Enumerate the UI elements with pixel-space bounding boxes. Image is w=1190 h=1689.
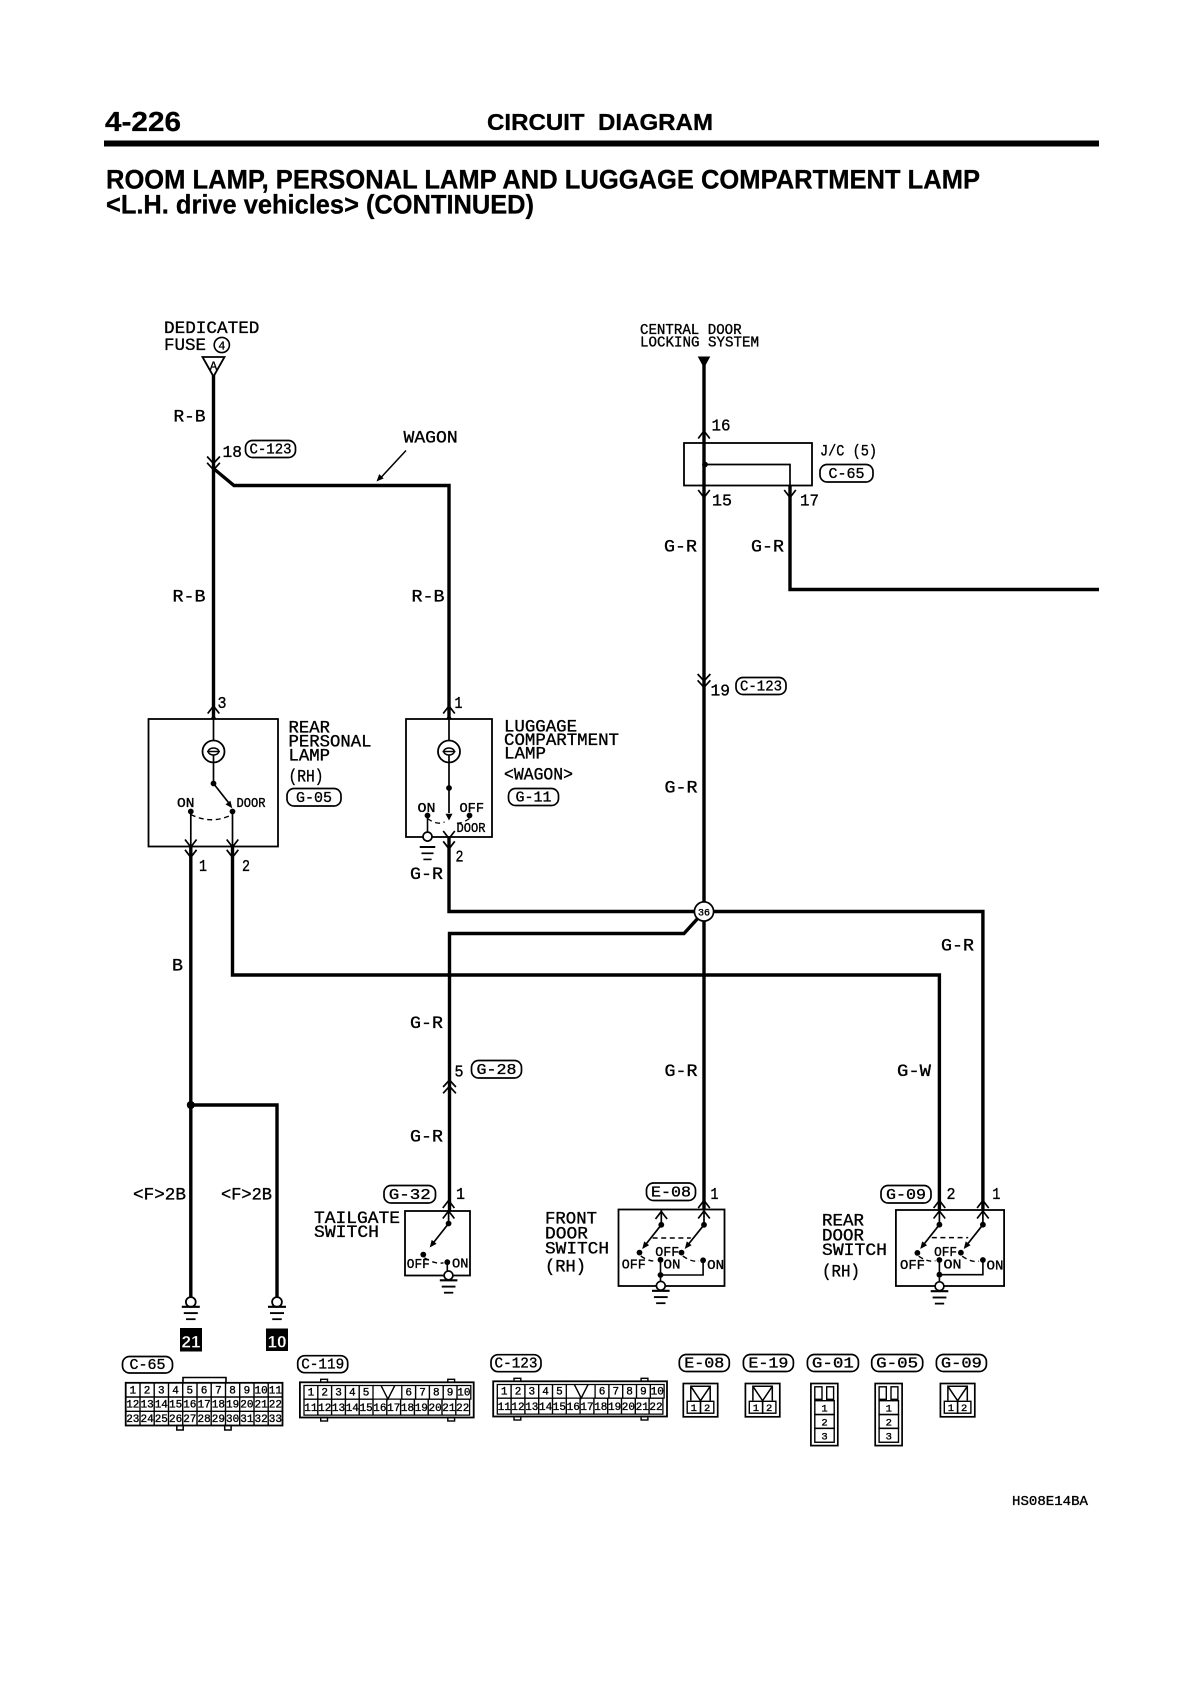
svg-text:ON: ON <box>944 1259 962 1274</box>
svg-text:10: 10 <box>457 1388 470 1400</box>
svg-text:G-R: G-R <box>410 1014 444 1034</box>
svg-text:5: 5 <box>186 1385 193 1397</box>
svg-text:G-R: G-R <box>410 1128 444 1148</box>
svg-text:(RH): (RH) <box>822 1263 860 1283</box>
svg-text:3: 3 <box>158 1385 165 1397</box>
svg-text:WAGON: WAGON <box>404 429 458 449</box>
svg-text:<F>2B: <F>2B <box>133 1186 186 1206</box>
svg-text:CIRCUIT DIAGRAM: CIRCUIT DIAGRAM <box>487 109 713 135</box>
svg-text:15: 15 <box>169 1400 182 1412</box>
svg-text:C-65: C-65 <box>829 466 865 483</box>
svg-text:17: 17 <box>387 1403 400 1415</box>
svg-text:16: 16 <box>567 1402 580 1414</box>
svg-text:11: 11 <box>304 1403 318 1415</box>
svg-text:E-08: E-08 <box>651 1184 691 1201</box>
svg-text:20: 20 <box>428 1403 441 1415</box>
connector G-28 pin 5 <box>443 1061 521 1094</box>
svg-text:OFF: OFF <box>407 1258 430 1273</box>
svg-text:DOOR: DOOR <box>237 797 266 812</box>
svg-text:ON: ON <box>707 1259 724 1274</box>
svg-text:6: 6 <box>599 1387 606 1399</box>
svg-text:1: 1 <box>129 1385 136 1397</box>
svg-text:G-28: G-28 <box>477 1062 517 1079</box>
svg-text:7: 7 <box>419 1388 426 1400</box>
rear personal lamp pin 3 <box>208 695 227 724</box>
svg-text:2: 2 <box>886 1418 892 1430</box>
svg-text:J/C (5): J/C (5) <box>820 443 877 461</box>
title line 1 <box>106 165 980 195</box>
svg-text:9: 9 <box>244 1385 251 1397</box>
svg-text:1: 1 <box>992 1186 1000 1205</box>
svg-text:13: 13 <box>140 1400 153 1412</box>
svg-text:ON: ON <box>452 1258 469 1273</box>
header CIRCUIT DIAGRAM <box>487 109 713 135</box>
rear personal lamp (RH) G-05 <box>149 719 279 847</box>
connector C-123 pin 18 <box>207 441 295 470</box>
svg-text:SWITCH: SWITCH <box>545 1240 609 1260</box>
svg-text:LAMP: LAMP <box>289 747 331 767</box>
svg-text:G-09: G-09 <box>941 1355 982 1372</box>
svg-text:3: 3 <box>335 1388 342 1400</box>
svg-text:14: 14 <box>155 1400 169 1412</box>
rear door switch (RH) <box>896 1210 1004 1291</box>
svg-text:3: 3 <box>886 1431 892 1443</box>
svg-text:31: 31 <box>240 1414 254 1426</box>
connector G-09 label <box>881 1186 931 1204</box>
svg-text:19: 19 <box>608 1402 621 1414</box>
svg-text:1: 1 <box>948 1403 954 1415</box>
svg-text:4: 4 <box>218 341 225 354</box>
svg-text:32: 32 <box>254 1414 267 1426</box>
svg-text:5: 5 <box>455 1064 464 1083</box>
svg-text:(RH): (RH) <box>545 1258 586 1278</box>
dedicated fuse label <box>164 319 259 356</box>
svg-text:ON: ON <box>987 1260 1004 1275</box>
label G-R above tailgate switch <box>410 1128 444 1148</box>
svg-text:5: 5 <box>363 1388 370 1400</box>
svg-text:C-123: C-123 <box>250 441 292 458</box>
svg-text:7: 7 <box>612 1387 619 1399</box>
connector E-08 pinout <box>679 1355 729 1417</box>
svg-text:18: 18 <box>223 444 243 463</box>
svg-text:ON: ON <box>177 797 195 812</box>
svg-text:G-09: G-09 <box>886 1187 926 1204</box>
svg-text:2: 2 <box>242 858 250 877</box>
svg-text:OFF: OFF <box>622 1259 646 1274</box>
wire branch to ground 10 <box>187 1101 277 1297</box>
rear door switch pin 2 <box>934 1186 956 1219</box>
svg-text:16: 16 <box>712 418 731 437</box>
svg-text:2: 2 <box>456 849 464 868</box>
svg-text:19: 19 <box>711 683 731 702</box>
drawing code <box>1012 1495 1089 1510</box>
svg-text:1: 1 <box>691 1403 697 1415</box>
svg-text:18: 18 <box>594 1402 607 1414</box>
svg-text:1: 1 <box>455 695 463 714</box>
header rule <box>104 141 1099 147</box>
luggage lamp pin 2 <box>443 831 463 868</box>
svg-text:21: 21 <box>636 1402 650 1414</box>
svg-text:DOOR: DOOR <box>457 822 486 837</box>
front door switch pin 1 <box>698 1186 718 1219</box>
svg-text:33: 33 <box>269 1414 282 1426</box>
svg-text:SWITCH: SWITCH <box>314 1223 379 1243</box>
connector G-01 pinout <box>807 1355 858 1446</box>
svg-text:4: 4 <box>349 1388 356 1400</box>
svg-text:G-R: G-R <box>941 937 975 957</box>
svg-text:ON: ON <box>418 802 436 817</box>
J/C pin 15 <box>698 490 732 512</box>
svg-text:SWITCH: SWITCH <box>822 1241 887 1261</box>
svg-text:<L.H. drive vehicles> (CONTINU: <L.H. drive vehicles> (CONTINUED) <box>106 190 534 220</box>
label G-R below luggage lamp <box>410 865 444 885</box>
svg-text:2: 2 <box>515 1387 522 1399</box>
svg-text:27: 27 <box>183 1414 196 1426</box>
central door locking system feed <box>640 323 759 368</box>
connector C-119 pinout <box>298 1356 474 1421</box>
svg-text:21: 21 <box>254 1400 268 1412</box>
title line 2 <box>106 190 534 220</box>
svg-text:19: 19 <box>415 1403 428 1415</box>
label WAGON with arrow <box>377 429 458 482</box>
ground 10 <box>266 1297 288 1351</box>
luggage compartment lamp WAGON G-11 <box>406 719 492 859</box>
connector E-08 label <box>647 1183 696 1201</box>
svg-text:1: 1 <box>711 1186 719 1205</box>
wire R-B from fuse A down to rear personal lamp pin 3 <box>212 375 215 719</box>
connector C-123 pin 19 <box>698 674 786 702</box>
svg-text:R-B: R-B <box>174 408 206 428</box>
svg-text:3: 3 <box>821 1431 827 1443</box>
svg-text:G-05: G-05 <box>296 790 332 807</box>
svg-text:12: 12 <box>318 1403 331 1415</box>
label B <box>172 957 183 977</box>
ground 21 <box>180 1297 202 1351</box>
label R-B upper <box>174 408 206 428</box>
svg-text:22: 22 <box>269 1400 282 1412</box>
svg-text:1: 1 <box>501 1387 508 1399</box>
svg-text:29: 29 <box>212 1414 225 1426</box>
wire central door locking system down through J/C to front door switch pin 1 <box>702 364 705 1210</box>
svg-text:C-123: C-123 <box>740 678 782 695</box>
svg-text:15: 15 <box>712 493 732 512</box>
svg-text:2: 2 <box>947 1186 956 1205</box>
label G-R below pin 15 <box>664 538 698 558</box>
svg-text:3: 3 <box>528 1387 535 1399</box>
svg-text:12: 12 <box>126 1400 139 1412</box>
svg-text:17: 17 <box>197 1400 210 1412</box>
svg-text:G-W: G-W <box>897 1062 932 1082</box>
rear door switch pin 1 <box>977 1186 1000 1219</box>
svg-text:30: 30 <box>226 1414 239 1426</box>
label R-B right <box>412 588 445 608</box>
connector C-123 pinout <box>491 1355 667 1420</box>
svg-text:2: 2 <box>704 1403 710 1415</box>
connector C-65 pinout <box>123 1357 283 1431</box>
label G-W <box>897 1062 932 1082</box>
rear door switch labels <box>822 1212 887 1283</box>
junction 36 <box>694 902 713 921</box>
svg-text:B: B <box>172 957 183 977</box>
front door switch ground <box>652 1291 670 1303</box>
wire G-R from J/C pin 17 to right edge <box>790 486 1099 590</box>
svg-text:3: 3 <box>218 695 227 714</box>
connector G-32 label <box>384 1186 436 1204</box>
svg-text:9: 9 <box>447 1388 454 1400</box>
svg-text:9: 9 <box>640 1387 647 1399</box>
tailgate switch labels <box>314 1209 400 1243</box>
label G-R right branch <box>941 937 975 957</box>
svg-text:15: 15 <box>359 1403 372 1415</box>
svg-text:22: 22 <box>456 1403 469 1415</box>
label F 2B left <box>133 1186 186 1206</box>
svg-text:18: 18 <box>401 1403 414 1415</box>
svg-text:E-19: E-19 <box>748 1355 788 1372</box>
svg-text:OFF: OFF <box>460 802 485 817</box>
svg-text:2: 2 <box>766 1403 772 1415</box>
connector E-19 pinout <box>743 1355 793 1417</box>
svg-text:10: 10 <box>651 1387 664 1399</box>
svg-text:OFF: OFF <box>900 1259 925 1274</box>
svg-text:HS08E14BA: HS08E14BA <box>1012 1495 1089 1510</box>
svg-text:23: 23 <box>126 1414 139 1426</box>
svg-text:20: 20 <box>240 1400 253 1412</box>
svg-text:8: 8 <box>433 1388 440 1400</box>
svg-text:10: 10 <box>254 1385 267 1397</box>
svg-text:19: 19 <box>226 1400 239 1412</box>
svg-text:25: 25 <box>155 1414 168 1426</box>
svg-text:G-R: G-R <box>410 865 444 885</box>
label R-B left <box>173 588 206 608</box>
J/C pin 17 <box>784 490 819 512</box>
svg-text:G-01: G-01 <box>812 1355 854 1372</box>
svg-text:20: 20 <box>622 1402 635 1414</box>
svg-text:8: 8 <box>626 1387 633 1399</box>
rear personal lamp pin 1 <box>185 840 207 878</box>
svg-text:17: 17 <box>800 493 819 512</box>
front door switch labels <box>545 1210 609 1278</box>
svg-text:13: 13 <box>525 1402 538 1414</box>
wire G-R from junction 36 to tailgate switch pin 1 <box>450 912 705 1212</box>
connector G-09 pinout <box>936 1355 986 1417</box>
svg-text:1: 1 <box>199 858 207 877</box>
page number 4-226 <box>105 106 181 137</box>
connector G-05 pinout <box>872 1355 923 1446</box>
svg-text:14: 14 <box>539 1402 553 1414</box>
svg-text:21: 21 <box>182 1333 201 1352</box>
svg-text:2: 2 <box>321 1388 328 1400</box>
svg-text:1: 1 <box>753 1403 759 1415</box>
svg-text:G-R: G-R <box>664 538 698 558</box>
svg-text:16: 16 <box>183 1400 196 1412</box>
wire G-R from luggage lamp pin 2 through junction 36 to rear door switch pin 1 <box>449 837 983 1210</box>
J/C pin 16 <box>698 418 730 439</box>
svg-text:FUSE: FUSE <box>164 336 206 356</box>
svg-text:17: 17 <box>580 1402 593 1414</box>
svg-text:2: 2 <box>821 1418 827 1430</box>
svg-text:11: 11 <box>498 1402 512 1414</box>
tailgate switch pin 1 <box>443 1186 465 1219</box>
svg-text:26: 26 <box>169 1414 182 1426</box>
wire B from personal lamp pin 1 to ground 21 <box>189 847 192 1298</box>
svg-text:24: 24 <box>140 1414 154 1426</box>
front door switch (RH) <box>619 1210 725 1291</box>
svg-text:4-226: 4-226 <box>105 106 181 137</box>
label F 2B right <box>221 1186 272 1206</box>
label G-R below pin 17 <box>751 538 785 558</box>
svg-text:7: 7 <box>215 1385 222 1397</box>
rear personal lamp labels <box>287 719 372 807</box>
wire R-B wagon branch to luggage compartment lamp pin 1 <box>214 469 450 720</box>
rear door switch ground <box>931 1291 949 1303</box>
svg-text:1: 1 <box>308 1388 315 1400</box>
svg-text:G-R: G-R <box>665 1062 699 1082</box>
fuse tap symbol A <box>203 357 225 377</box>
svg-text:ON: ON <box>664 1259 681 1274</box>
svg-text:16: 16 <box>373 1403 386 1415</box>
svg-text:G-11: G-11 <box>516 789 552 806</box>
svg-text:C-119: C-119 <box>301 1357 344 1374</box>
luggage lamp labels <box>504 718 619 807</box>
wire G-W from personal lamp pin 2 to rear door switch pin 2 <box>233 847 940 1210</box>
junction block J/C(5) C-65 <box>684 443 877 486</box>
svg-text:G-32: G-32 <box>389 1187 431 1204</box>
svg-text:G-R: G-R <box>751 538 785 558</box>
rear personal lamp pin 2 <box>227 840 250 878</box>
svg-text:2: 2 <box>961 1403 967 1415</box>
svg-text:22: 22 <box>649 1402 662 1414</box>
svg-text:A: A <box>210 360 218 374</box>
label G-R mid of central wire <box>665 779 699 799</box>
svg-text:4: 4 <box>542 1387 549 1399</box>
svg-text:18: 18 <box>212 1400 225 1412</box>
svg-text:(RH): (RH) <box>289 768 324 788</box>
svg-text:6: 6 <box>201 1385 208 1397</box>
svg-text:11: 11 <box>269 1385 283 1397</box>
svg-text:R-B: R-B <box>412 588 445 608</box>
label G-R above G-28 <box>410 1014 444 1034</box>
tailgate switch <box>405 1211 470 1280</box>
svg-text:R-B: R-B <box>173 588 206 608</box>
svg-text:G-R: G-R <box>665 779 699 799</box>
svg-text:2: 2 <box>144 1385 151 1397</box>
svg-text:28: 28 <box>197 1414 210 1426</box>
svg-text:E-08: E-08 <box>684 1355 724 1372</box>
svg-text:8: 8 <box>229 1385 236 1397</box>
svg-text:<F>2B: <F>2B <box>221 1186 272 1206</box>
svg-text:6: 6 <box>405 1388 412 1400</box>
svg-text:G-05: G-05 <box>876 1355 918 1372</box>
svg-text:5: 5 <box>556 1387 563 1399</box>
svg-text:C-123: C-123 <box>495 1356 538 1373</box>
svg-text:<WAGON>: <WAGON> <box>504 766 573 786</box>
svg-text:LOCKING SYSTEM: LOCKING SYSTEM <box>640 336 759 352</box>
label G-R central above front door switch <box>665 1062 699 1082</box>
svg-text:10: 10 <box>268 1333 287 1352</box>
svg-text:15: 15 <box>553 1402 566 1414</box>
luggage lamp pin 1 <box>443 695 462 724</box>
svg-text:36: 36 <box>698 908 710 919</box>
tailgate switch ground <box>440 1280 458 1292</box>
svg-text:LAMP: LAMP <box>504 745 546 765</box>
svg-text:C-65: C-65 <box>130 1357 166 1374</box>
svg-text:4: 4 <box>172 1385 179 1397</box>
svg-text:14: 14 <box>346 1403 360 1415</box>
svg-text:1: 1 <box>456 1186 465 1205</box>
svg-text:12: 12 <box>511 1402 524 1414</box>
svg-text:21: 21 <box>442 1403 456 1415</box>
svg-text:13: 13 <box>332 1403 345 1415</box>
